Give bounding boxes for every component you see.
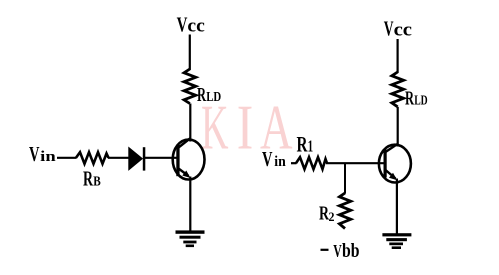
svg-text:V: V <box>29 142 40 166</box>
transistor Q1 emitter diagonal <box>179 169 189 177</box>
svg-text:V: V <box>177 12 188 36</box>
resistor R1 <box>296 157 327 169</box>
node Vin label (left) <box>29 142 57 166</box>
svg-text:LD: LD <box>206 90 221 105</box>
transistor Q1 body circle <box>173 140 205 180</box>
transistor Q1 emitter arrowhead <box>182 171 190 179</box>
node Vcc label (left) <box>177 12 205 36</box>
label RLD (left) <box>197 84 221 106</box>
wire RLD to collector (right) <box>397 107 399 147</box>
svg-text:B: B <box>93 175 101 190</box>
wire emitter to ground (left) <box>189 177 191 233</box>
wire Vcc to RLD (left) <box>189 35 191 71</box>
svg-text:R: R <box>297 131 309 156</box>
ground (left) <box>176 230 205 247</box>
svg-text:in: in <box>40 149 56 165</box>
wire Vin to R1 <box>291 162 297 164</box>
wire RB to diode <box>108 157 130 159</box>
transistor Q2 body circle <box>379 145 411 183</box>
resistor RB <box>76 152 109 164</box>
wire junction to R2 <box>344 163 346 193</box>
resistor RLD (left) <box>184 69 196 104</box>
svg-text:cc: cc <box>187 15 204 36</box>
svg-text:V: V <box>384 17 394 41</box>
wire RLD to collector (left) <box>189 104 191 142</box>
ground (right) <box>382 233 411 249</box>
svg-text:2: 2 <box>329 209 335 224</box>
transistor Q2 emitter arrowhead <box>389 173 397 181</box>
node -Vbb label <box>321 241 360 262</box>
transistor Q1 collector diagonal <box>179 138 191 148</box>
svg-text:LD: LD <box>414 94 428 109</box>
svg-text:R: R <box>405 88 414 110</box>
resistor R2 <box>339 193 350 229</box>
wire Vcc to RLD (right) <box>397 39 399 73</box>
svg-text:V: V <box>333 241 342 261</box>
label RLD (right) <box>405 88 428 110</box>
transistor Q2 emitter diagonal <box>386 170 396 179</box>
label R1 <box>297 131 314 156</box>
node Vcc label (right) <box>384 17 412 41</box>
transistor Q2 base bar <box>384 150 387 178</box>
wire emitter to ground (right) <box>396 179 398 235</box>
label R2 <box>319 203 335 225</box>
transistor Q1 base bar <box>176 145 179 176</box>
diode D1 anode triangle <box>129 148 143 170</box>
svg-text:in: in <box>274 154 286 170</box>
svg-text:cc: cc <box>394 20 412 41</box>
diode D1 cathode bar <box>143 147 146 170</box>
resistor RLD (right) <box>392 72 404 107</box>
svg-text:I: I <box>237 93 254 163</box>
svg-text:V: V <box>262 147 273 171</box>
label RB <box>83 167 101 191</box>
svg-text:R: R <box>197 84 206 106</box>
wire Vin to RB <box>57 157 77 159</box>
wire diode to base (left) <box>145 157 177 159</box>
watermark KIA <box>201 93 293 163</box>
svg-text:bb: bb <box>342 241 360 262</box>
svg-text:R: R <box>83 167 94 191</box>
svg-text:1: 1 <box>308 136 314 155</box>
transistor Q2 collector diagonal <box>386 144 398 152</box>
wire R1 to base (right) <box>326 162 384 164</box>
node Vin label (right) <box>262 147 286 171</box>
